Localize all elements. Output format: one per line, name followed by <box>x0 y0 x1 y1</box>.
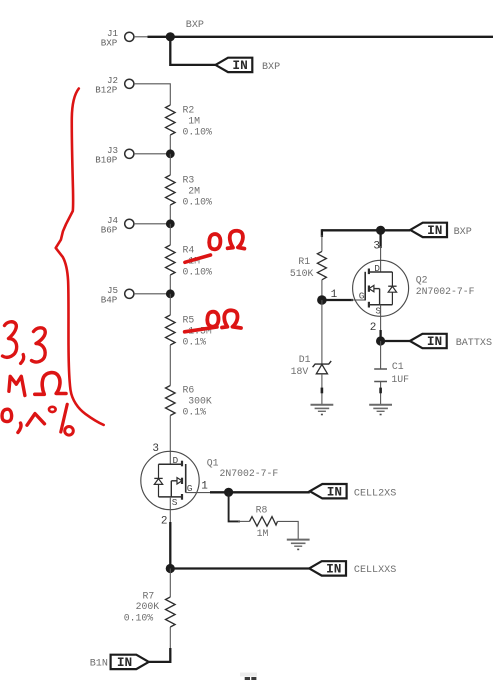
source horizontal <box>369 304 393 306</box>
svg-text:BXP: BXP <box>454 227 472 238</box>
wire R3 to J4 node <box>169 205 171 224</box>
annotation red strike R4 value <box>185 255 211 262</box>
svg-text:R5: R5 <box>183 315 195 326</box>
wire to R3 <box>169 154 171 175</box>
svg-text:1M: 1M <box>188 116 200 127</box>
wire R8 to ground <box>278 521 299 539</box>
resistor R6 <box>166 385 212 418</box>
annotation red M ohm <box>9 376 25 395</box>
wire Q1 gate out <box>186 492 212 494</box>
connector J5 <box>101 285 134 305</box>
wire drop to IN tag <box>170 37 215 65</box>
wire to R5 <box>169 294 171 315</box>
wire down to R8 <box>229 492 240 521</box>
wire gate Q2 <box>322 299 353 301</box>
svg-text:IN: IN <box>427 334 442 349</box>
node J4 junction <box>166 219 175 228</box>
port IN B1N <box>90 655 149 670</box>
connector J4 <box>101 215 134 235</box>
annotation red 0,1% <box>2 409 12 421</box>
wire C1 to ground <box>380 382 382 405</box>
svg-text:3: 3 <box>373 241 380 253</box>
svg-text:IN: IN <box>232 58 247 73</box>
wire right BXP bus <box>322 229 410 231</box>
body connection with arrow <box>374 288 380 290</box>
svg-text:200K: 200K <box>136 601 160 612</box>
wire R2 to J3 node <box>169 135 171 154</box>
svg-text:1UF: 1UF <box>391 374 409 385</box>
svg-text:0.10%: 0.10% <box>183 267 213 278</box>
wire R1 to node 1 <box>321 280 323 300</box>
svg-text:BXP: BXP <box>186 20 204 31</box>
resistor R8 <box>250 504 278 538</box>
svg-text:R6: R6 <box>183 385 195 396</box>
wire R7 to B1N <box>169 627 171 650</box>
wire Q2 source down <box>380 305 382 332</box>
svg-text:1: 1 <box>201 480 208 492</box>
node BATTXS junction <box>376 336 385 345</box>
svg-text:300K: 300K <box>188 396 212 407</box>
body connection with arrow <box>171 480 177 482</box>
annotation red 0-ohm at R5 <box>207 312 218 327</box>
wire bus corner to R1 <box>321 229 323 237</box>
svg-text:2N7002-7-F: 2N7002-7-F <box>416 286 475 297</box>
gate bar <box>185 464 187 493</box>
wire J2 to chain <box>134 84 170 105</box>
gate bar <box>364 272 366 301</box>
ground (C1) <box>369 405 392 415</box>
svg-text:3: 3 <box>152 443 159 455</box>
wire Q1 source down <box>169 497 171 524</box>
wire J1 stub <box>134 36 150 38</box>
ground (R8) <box>287 540 310 550</box>
source horizontal <box>159 496 183 498</box>
transistor Q1 2N7002-7-F <box>141 451 279 509</box>
svg-text:18V: 18V <box>291 366 309 377</box>
svg-text:C1: C1 <box>392 361 404 372</box>
svg-text:IN: IN <box>326 562 341 577</box>
node J3 junction <box>166 149 175 158</box>
svg-text:IN: IN <box>327 484 342 499</box>
svg-text:B4P: B4P <box>101 294 118 305</box>
connector J1 <box>101 28 134 48</box>
svg-text:0.10%: 0.10% <box>183 197 213 208</box>
svg-text:0.1%: 0.1% <box>183 407 207 418</box>
capacitor C1 <box>374 361 409 385</box>
wire to CELL2XS <box>229 491 310 493</box>
top (drain) horizontal <box>159 463 183 465</box>
svg-text:CELLXXS: CELLXXS <box>354 565 396 576</box>
svg-text:R7: R7 <box>143 591 155 602</box>
svg-text:BXP: BXP <box>262 62 280 73</box>
wire to BATTXS <box>381 340 410 342</box>
wire to R4 <box>169 224 171 245</box>
annotation red strike R5 value <box>185 327 217 332</box>
wire node1 to D1 <box>321 300 323 364</box>
node J5 junction <box>166 289 175 298</box>
svg-text:0.10%: 0.10% <box>183 127 213 138</box>
resistor R3 <box>166 175 213 208</box>
wire R4 to J5 node <box>169 275 171 294</box>
port IN CELLXXS <box>309 561 396 576</box>
svg-text:R3: R3 <box>183 175 195 186</box>
svg-text:BATTXS: BATTXS <box>456 338 492 349</box>
connector J2 <box>95 75 134 95</box>
annotation red brace <box>56 89 104 425</box>
svg-text:R8: R8 <box>256 504 268 515</box>
port IN BXP (top) <box>216 58 281 73</box>
svg-text:1M: 1M <box>257 528 269 539</box>
svg-text:Q1: Q1 <box>207 457 219 468</box>
svg-text:2N7002-7-F: 2N7002-7-F <box>220 468 279 479</box>
top (drain) horizontal <box>369 271 393 273</box>
body diode <box>391 272 393 286</box>
node 1 junction <box>317 295 327 305</box>
wire to C1 <box>380 341 382 369</box>
connector J3 <box>95 145 134 165</box>
svg-text:2M: 2M <box>188 186 200 197</box>
svg-text:BXP: BXP <box>101 37 118 48</box>
wire BXP bus <box>148 36 493 38</box>
wire bus to Q2 drain <box>379 230 381 248</box>
svg-text:B10P: B10P <box>95 154 118 165</box>
resistor R2 <box>166 105 213 138</box>
node BXP junction <box>166 32 175 41</box>
port IN BXP (right) <box>410 223 472 238</box>
wire R5 to R6 <box>169 345 171 386</box>
svg-text:G: G <box>359 291 365 302</box>
transistor Q2 2N7002-7-F <box>353 260 475 316</box>
svg-text:R1: R1 <box>298 256 310 267</box>
resistor R4 <box>166 245 213 278</box>
resistor R7 <box>124 591 175 627</box>
wire to CELLXXS <box>170 567 309 569</box>
svg-text:0.10%: 0.10% <box>124 612 154 623</box>
wire R6 to Q1 drain <box>169 416 171 465</box>
node CELLXXS junction <box>166 564 175 573</box>
wire J5 stub <box>134 293 170 295</box>
resistor R5 <box>166 315 212 348</box>
annotation red 0-ohm at R4 <box>209 234 220 249</box>
channel bar segments <box>181 461 183 467</box>
port IN CELL2XS <box>310 484 397 499</box>
node gate junction <box>224 488 233 497</box>
svg-text:2: 2 <box>161 516 168 528</box>
diode D1 zener 18V <box>291 354 332 377</box>
svg-text:R2: R2 <box>183 105 195 116</box>
svg-text:510K: 510K <box>290 268 314 279</box>
svg-text:R4: R4 <box>183 245 195 256</box>
body diode <box>158 464 160 478</box>
ground (D1) <box>311 405 334 415</box>
node BXP right junction <box>376 226 385 235</box>
bottom page-number fragment <box>240 673 257 677</box>
port IN BATTXS <box>410 334 492 349</box>
wire J3 stub <box>134 153 170 155</box>
wire D1 to ground <box>321 374 323 405</box>
svg-text:B6P: B6P <box>101 224 118 235</box>
svg-text:B12P: B12P <box>95 84 118 95</box>
svg-text:IN: IN <box>427 223 442 238</box>
wire to R7 <box>169 569 171 598</box>
svg-text:D: D <box>374 263 380 274</box>
svg-text:D1: D1 <box>299 354 311 365</box>
annotation red 3,3 <box>3 322 17 358</box>
resistor R1 <box>290 251 327 279</box>
channel bar segments <box>368 269 370 275</box>
svg-text:IN: IN <box>117 655 132 670</box>
svg-text:2: 2 <box>370 322 377 334</box>
wire J4 stub <box>134 223 170 225</box>
svg-text:CELL2XS: CELL2XS <box>354 488 396 499</box>
svg-text:S: S <box>172 497 178 508</box>
svg-text:D: D <box>173 455 179 466</box>
svg-text:Q2: Q2 <box>416 274 428 285</box>
svg-text:B1N: B1N <box>90 659 108 670</box>
svg-text:0.1%: 0.1% <box>183 337 207 348</box>
